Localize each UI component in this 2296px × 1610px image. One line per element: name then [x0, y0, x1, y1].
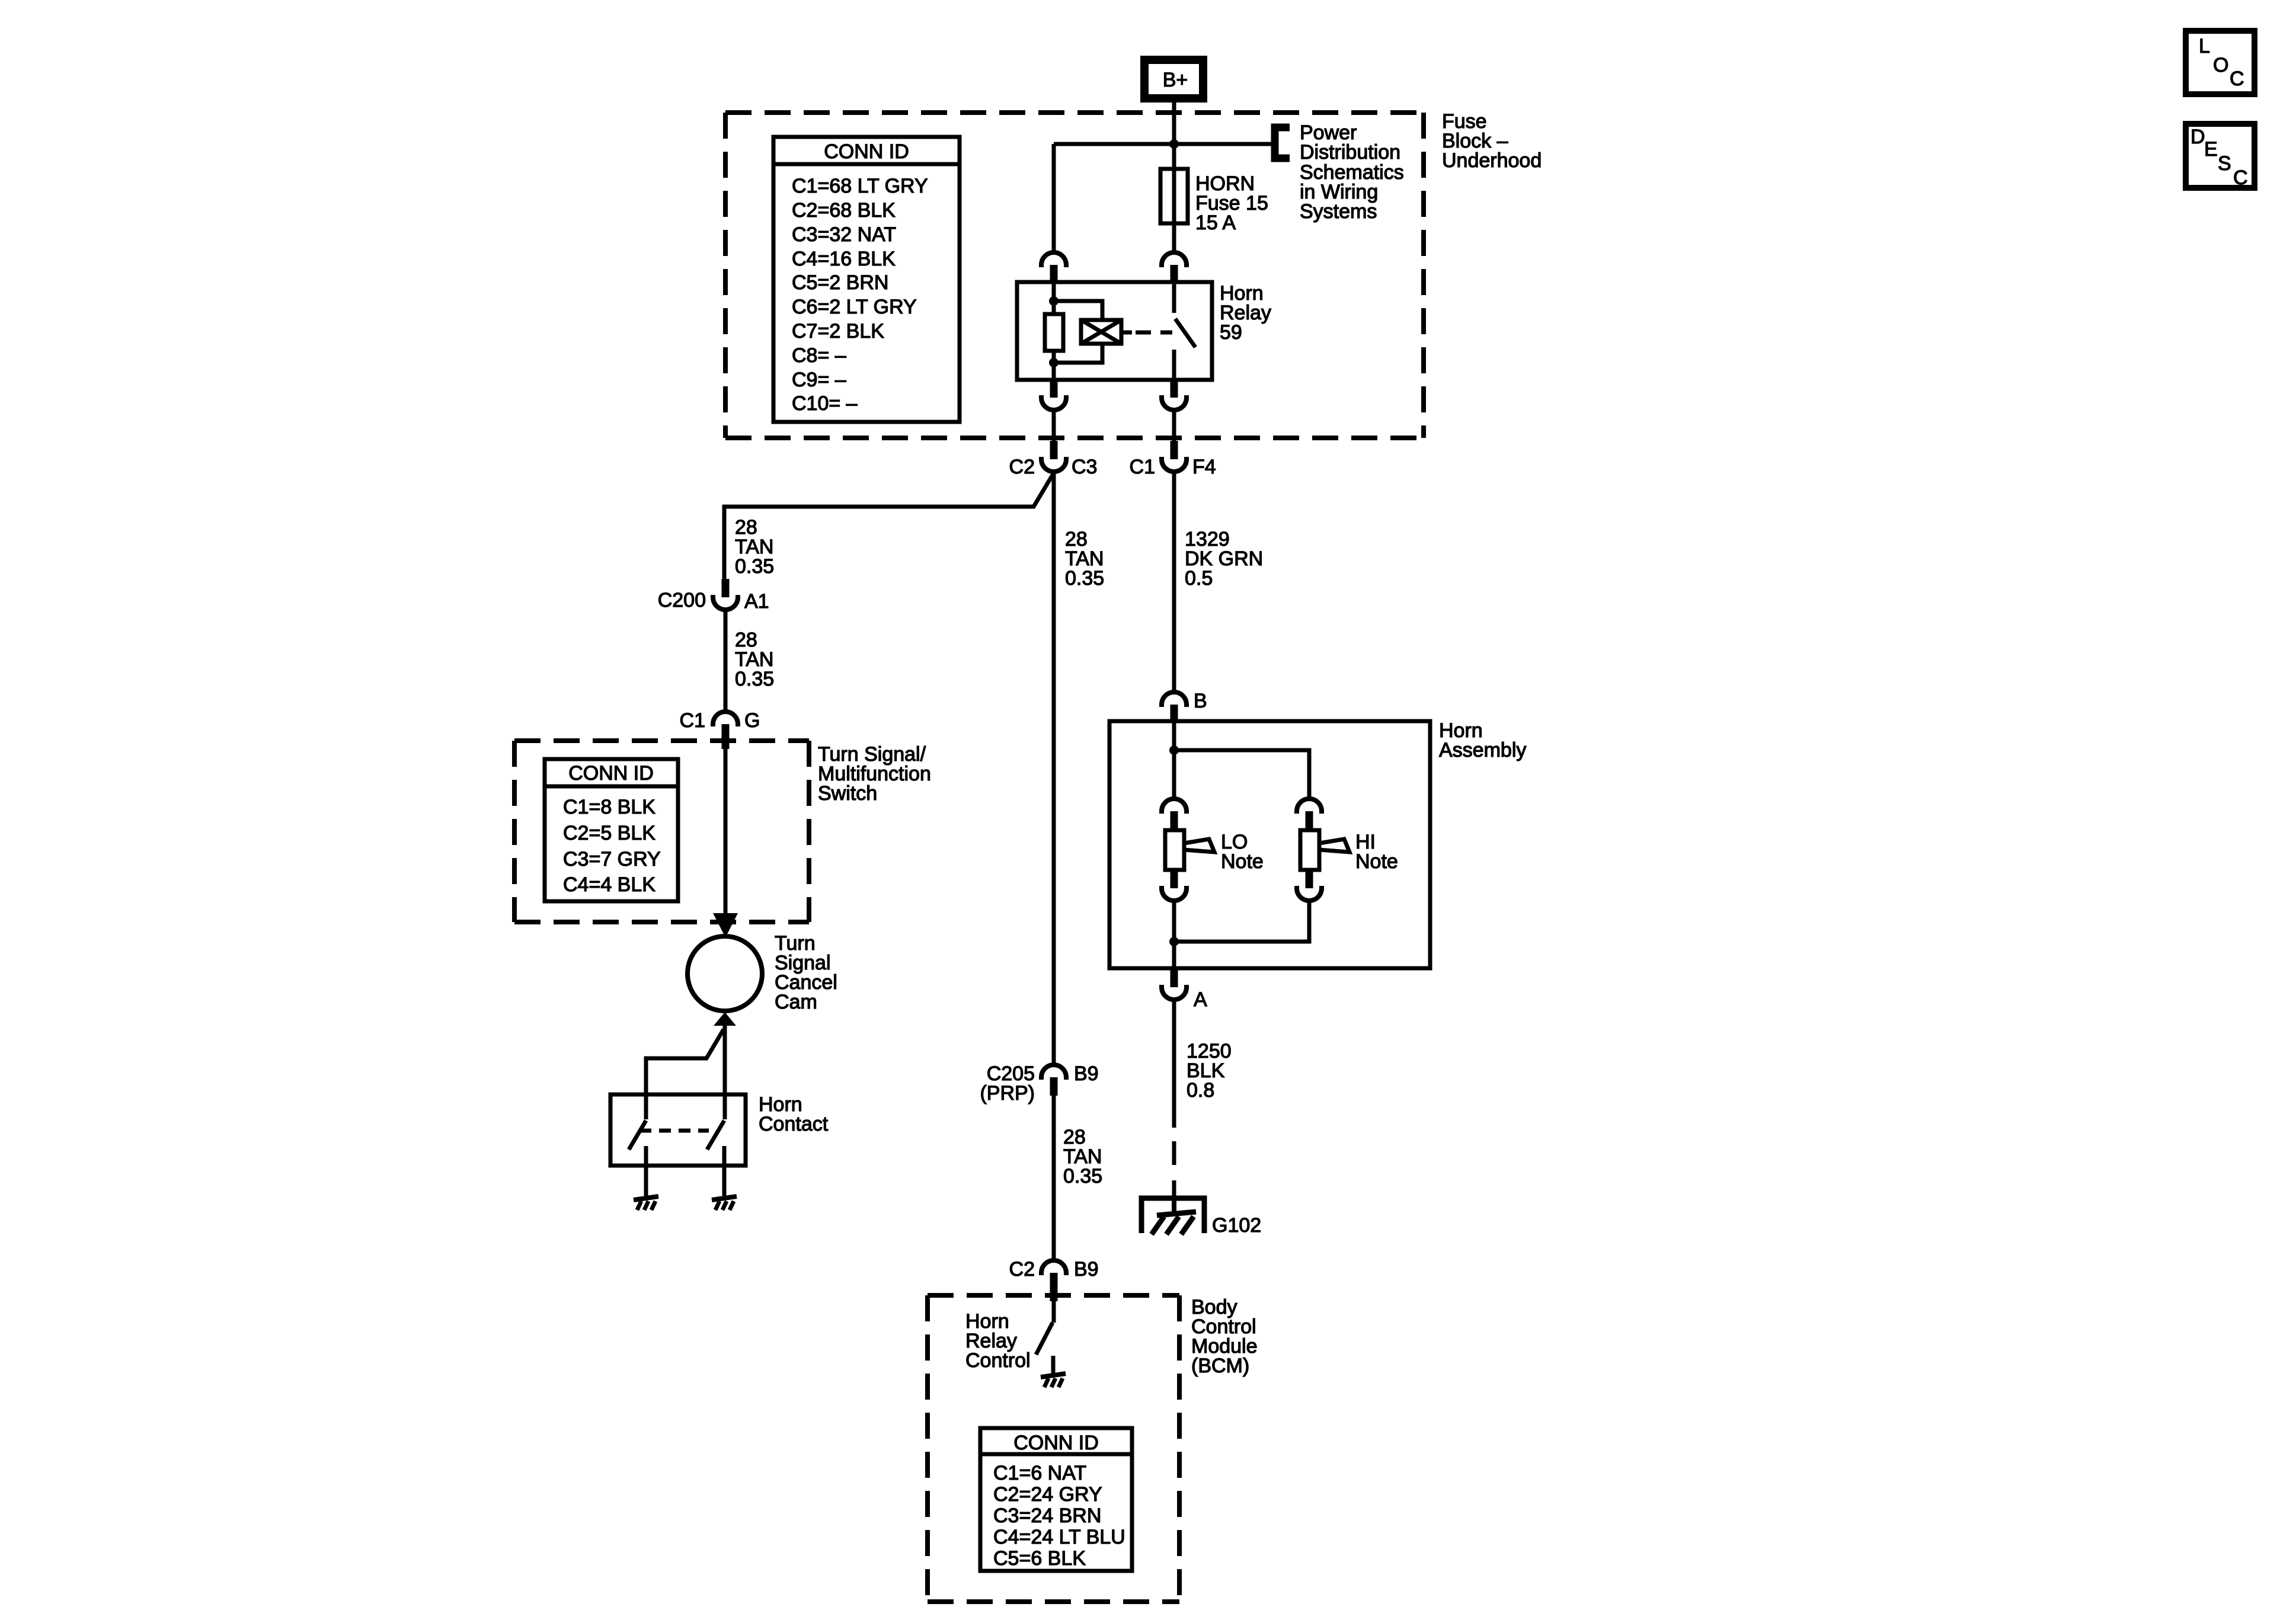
corner box DESC	[2186, 124, 2255, 189]
wire label 28 TAN 0.35 (center upper)	[1065, 528, 1104, 590]
CONN ID table (multifunction switch)	[545, 759, 678, 901]
connector A (horn assembly)	[1162, 968, 1207, 1011]
relay coil (box with X)	[1081, 320, 1121, 344]
svg-text:C2=24 GRY: C2=24 GRY	[993, 1483, 1102, 1506]
svg-text:(BCM): (BCM)	[1191, 1355, 1249, 1377]
junction node at B+ feed	[1169, 139, 1179, 149]
connector C1/G	[680, 709, 760, 749]
relay switch lower contact	[1172, 350, 1176, 380]
node coil top	[1049, 296, 1059, 306]
connector LO horn top	[1162, 799, 1187, 830]
wire to coil bottom	[1054, 344, 1102, 363]
wire C3 down to C205	[1052, 473, 1056, 1064]
svg-text:C3=32 NAT: C3=32 NAT	[792, 223, 896, 246]
power symbol B+	[1144, 60, 1203, 98]
svg-text:0.35: 0.35	[735, 555, 774, 578]
relay box Horn Relay 59	[1017, 282, 1212, 380]
svg-text:C2: C2	[1009, 456, 1035, 478]
wire label 28 TAN 0.35 (center lower)	[1063, 1126, 1102, 1188]
wire right switch to ground	[722, 1146, 727, 1196]
svg-text:Note: Note	[1221, 850, 1264, 873]
arrowhead down to cancel cam	[713, 913, 738, 937]
svg-text:Distribution: Distribution	[1300, 141, 1400, 164]
relay switch blade	[1175, 319, 1195, 347]
ground (right horn contact)	[712, 1196, 737, 1210]
svg-text:B9: B9	[1074, 1258, 1099, 1281]
svg-text:C200: C200	[658, 589, 706, 612]
svg-text:C1: C1	[680, 709, 705, 732]
svg-text:E: E	[2204, 138, 2218, 161]
svg-text:Contact: Contact	[759, 1113, 829, 1135]
svg-text:Cam: Cam	[775, 991, 817, 1013]
connector C1/F4	[1130, 441, 1216, 478]
svg-text:C10= –: C10= –	[792, 392, 858, 415]
svg-text:A1: A1	[744, 590, 769, 613]
node coil bottom	[1049, 358, 1059, 367]
label Horn Contact	[759, 1093, 829, 1135]
wire label 28 TAN 0.35 (left lower)	[735, 629, 774, 690]
connector LO horn bottom	[1162, 870, 1187, 901]
wire branch to left horn contact	[646, 1029, 724, 1119]
wire label 1250 BLK 0.8	[1187, 1040, 1232, 1102]
svg-text:0.35: 0.35	[735, 668, 774, 690]
arrowhead up to cancel cam	[714, 1012, 736, 1026]
label Turn Signal/Multifunction Switch	[818, 743, 931, 805]
svg-text:A: A	[1194, 988, 1207, 1011]
label Horn Relay Control	[965, 1310, 1031, 1372]
LO horn element	[1165, 830, 1214, 870]
svg-text:C4=24 LT BLU: C4=24 LT BLU	[993, 1526, 1125, 1548]
ground G102	[1141, 1198, 1261, 1237]
label Horn Relay 59	[1220, 282, 1271, 344]
wire cam to right horn contact	[723, 1026, 727, 1119]
wire label 1329 DK GRN 0.5	[1185, 528, 1263, 590]
bracket Power Distribution reference	[1275, 127, 1290, 158]
connector pin 30 (relay switch top)	[1162, 252, 1187, 282]
label HI Note	[1355, 831, 1398, 873]
wire horizontal feed	[1054, 142, 1273, 146]
wire LO out	[1172, 901, 1176, 968]
ground (left horn contact)	[634, 1196, 658, 1210]
dashed box Body Control Module	[928, 1295, 1179, 1602]
svg-text:L: L	[2199, 35, 2210, 57]
horn assembly box	[1109, 721, 1430, 968]
wire right drop through fuse	[1172, 144, 1176, 251]
dashed wire to G102	[1172, 1141, 1176, 1196]
svg-text:C8= –: C8= –	[792, 344, 846, 367]
svg-text:C6=2 LT GRY: C6=2 LT GRY	[792, 296, 917, 318]
horn contact right switch blade	[707, 1121, 724, 1150]
label Body Control Module (BCM)	[1191, 1296, 1258, 1377]
svg-text:0.8: 0.8	[1187, 1079, 1214, 1102]
connector pin 87 (relay switch bottom)	[1162, 380, 1187, 410]
connector C2/C3	[1009, 441, 1098, 478]
svg-text:15 A: 15 A	[1195, 212, 1236, 234]
svg-text:Control: Control	[965, 1349, 1031, 1372]
node horn feed split	[1169, 745, 1179, 755]
horn relay control switch	[1036, 1301, 1054, 1374]
svg-text:Underhood: Underhood	[1442, 149, 1542, 172]
connector HI horn bottom	[1297, 870, 1322, 901]
svg-text:C: C	[2233, 167, 2248, 189]
svg-text:C1=8 BLK: C1=8 BLK	[563, 796, 655, 818]
svg-text:C1=68 LT GRY: C1=68 LT GRY	[792, 175, 928, 197]
svg-text:C3=24 BRN: C3=24 BRN	[993, 1505, 1101, 1527]
connector HI horn top	[1297, 799, 1322, 830]
svg-text:G102: G102	[1212, 1214, 1261, 1237]
wire to HI branch	[1174, 750, 1309, 799]
wire B+ to junction	[1172, 103, 1176, 144]
connector pin 85 (relay coil bottom)	[1041, 380, 1066, 410]
svg-text:C3=7 GRY: C3=7 GRY	[563, 848, 661, 870]
wire relay coil branch	[1052, 282, 1056, 380]
wire switch feed with arrow	[724, 749, 728, 916]
svg-text:C4=4 BLK: C4=4 BLK	[563, 873, 655, 896]
svg-text:O: O	[2213, 54, 2228, 76]
svg-text:0.5: 0.5	[1185, 567, 1213, 590]
svg-text:(PRP): (PRP)	[980, 1082, 1035, 1105]
label Fuse Block - Underhood	[1442, 110, 1542, 172]
dashed box Fuse Block - Underhood	[725, 113, 1424, 438]
dashed actuator line	[1136, 331, 1172, 335]
wire A to ground	[1172, 999, 1176, 1128]
svg-text:C: C	[2230, 68, 2244, 90]
svg-text:CONN ID: CONN ID	[1013, 1432, 1099, 1454]
wire C200 to C1/G	[724, 610, 728, 710]
svg-text:C5=6 BLK: C5=6 BLK	[993, 1547, 1086, 1570]
label Turn Signal Cancel Cam	[775, 932, 837, 1013]
connector pin 86 (relay coil top)	[1041, 252, 1066, 282]
connector C200/A1	[658, 579, 769, 613]
wire coil output	[1121, 331, 1132, 335]
CONN ID table (BCM)	[980, 1428, 1132, 1571]
svg-text:C1=6 NAT: C1=6 NAT	[993, 1462, 1086, 1484]
svg-text:G: G	[744, 709, 760, 732]
svg-text:0.35: 0.35	[1065, 567, 1104, 590]
svg-text:C2: C2	[1009, 1258, 1035, 1281]
svg-text:S: S	[2218, 152, 2231, 175]
wire relay switch out to C1/F4	[1172, 412, 1176, 441]
fuse HORN Fuse 15 15A	[1160, 169, 1188, 223]
horn contact left switch blade	[629, 1121, 646, 1150]
node horn return join	[1169, 937, 1179, 946]
turn signal cancel cam circle	[687, 936, 762, 1011]
wire label 28 TAN 0.35 (left upper)	[735, 516, 774, 578]
resistor (relay)	[1045, 314, 1063, 351]
label HORN Fuse 15 15 A	[1195, 172, 1268, 234]
svg-text:59: 59	[1220, 321, 1242, 344]
svg-text:CONN ID: CONN ID	[568, 762, 654, 785]
connector B (horn assembly)	[1162, 690, 1207, 721]
svg-text:C2=5 BLK: C2=5 BLK	[563, 822, 655, 844]
wire to coil top	[1054, 301, 1102, 320]
svg-text:C1: C1	[1130, 456, 1155, 478]
svg-text:Switch: Switch	[818, 782, 877, 805]
wire HI out	[1174, 901, 1309, 942]
svg-text:Note: Note	[1355, 850, 1398, 873]
svg-text:Assembly: Assembly	[1439, 739, 1526, 761]
wire left drop to relay coil	[1052, 144, 1056, 251]
svg-text:Systems: Systems	[1300, 200, 1377, 223]
svg-text:D: D	[2191, 126, 2205, 148]
svg-text:C5=2 BRN: C5=2 BRN	[792, 271, 888, 294]
svg-text:CONN ID: CONN ID	[824, 140, 909, 163]
label Power Distribution Schematics in Wiring Systems	[1300, 121, 1404, 223]
svg-text:B9: B9	[1074, 1062, 1099, 1085]
wire B feed inside	[1172, 721, 1176, 799]
svg-text:C4=16 BLK: C4=16 BLK	[792, 248, 896, 270]
wire C205 to C2	[1052, 1096, 1056, 1259]
dashed box Turn Signal/Multifunction Switch	[514, 741, 809, 922]
connector C205/B9 (PRP)	[980, 1062, 1098, 1105]
ground (BCM internal)	[1041, 1374, 1066, 1387]
svg-text:C3: C3	[1072, 456, 1097, 478]
connector C2/B9 (BCM)	[1009, 1258, 1099, 1301]
label Horn Assembly	[1439, 719, 1526, 761]
wire left switch to ground	[644, 1146, 648, 1196]
svg-text:B: B	[1194, 690, 1207, 712]
CONN ID table (fuse block)	[773, 137, 960, 422]
label LO Note	[1221, 831, 1264, 873]
svg-text:C9= –: C9= –	[792, 369, 846, 391]
wire branch C3 to left run	[724, 473, 1054, 579]
wire relay coil out to C2/C3	[1052, 412, 1056, 441]
corner box LOC	[2186, 31, 2255, 94]
svg-text:C2=68 BLK: C2=68 BLK	[792, 199, 896, 222]
svg-text:F4: F4	[1192, 456, 1216, 478]
relay switch upper contact	[1172, 282, 1176, 313]
svg-text:0.35: 0.35	[1063, 1165, 1102, 1188]
svg-text:C7=2 BLK: C7=2 BLK	[792, 320, 884, 343]
gang dashed link	[639, 1129, 709, 1133]
HI horn element	[1300, 830, 1350, 870]
wire F4 to horn assembly	[1172, 472, 1176, 690]
horn contact box	[610, 1094, 746, 1166]
svg-text:B+: B+	[1163, 69, 1188, 91]
